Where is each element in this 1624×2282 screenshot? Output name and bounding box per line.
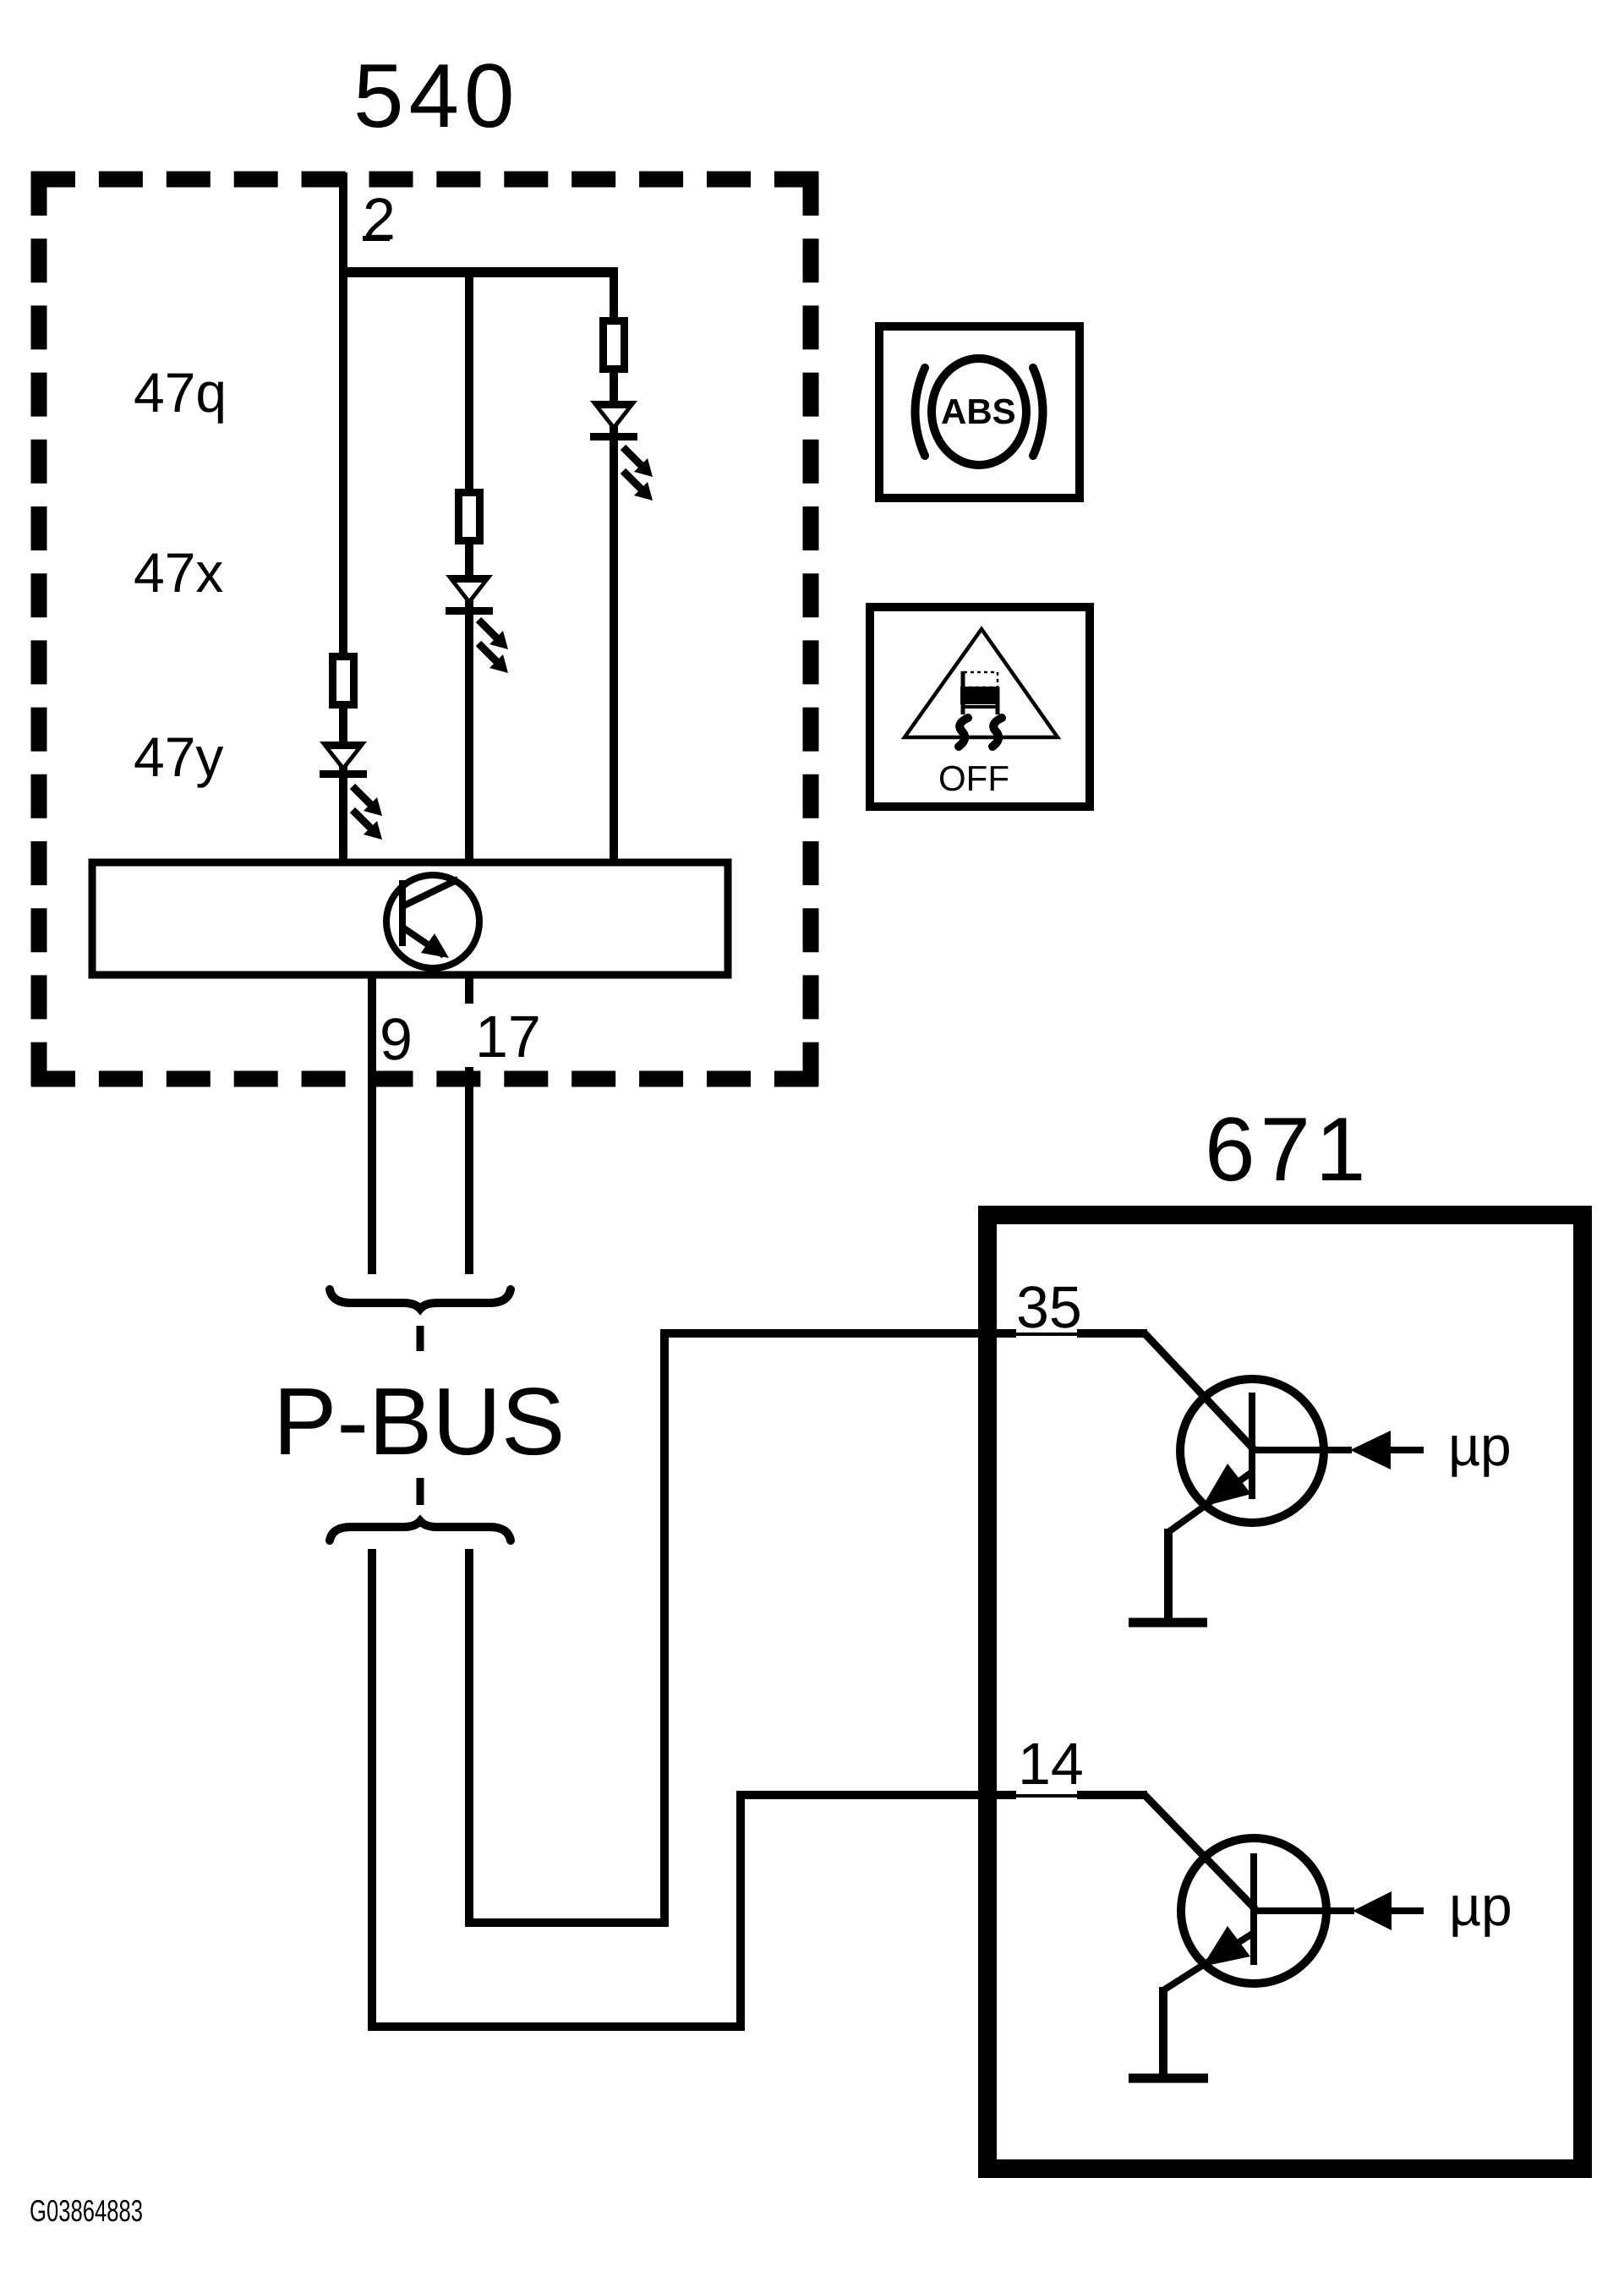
svg-text:P-BUS: P-BUS	[273, 1368, 565, 1475]
wire pin 35 into box	[1077, 1329, 1147, 1338]
svg-text:ABS: ABS	[941, 391, 1016, 431]
resistor in 47x branch	[459, 493, 480, 541]
pin 2 underline	[363, 236, 390, 241]
wire pin 9	[368, 975, 376, 1274]
wire Q1 emitter	[1164, 1529, 1173, 1620]
wire pin 17 upper stub	[465, 975, 473, 1004]
svg-text:17: 17	[475, 1004, 541, 1070]
pin 35 tick (thin wire under label)	[1011, 1333, 1082, 1336]
svg-text:G03864883: G03864883	[30, 2193, 143, 2228]
svg-text:2: 2	[363, 186, 396, 252]
svg-text:47y: 47y	[134, 725, 223, 788]
wire pin 17 lower	[465, 1067, 473, 1274]
wire bus node 2 horizontal	[339, 267, 618, 277]
svg-text:47x: 47x	[134, 541, 223, 604]
P-BUS dashed link upper	[417, 1326, 424, 1351]
transistor Q2	[1163, 1838, 1354, 1990]
phototransistor symbol in strip	[386, 875, 479, 968]
ground Q2	[1129, 2074, 1208, 2083]
svg-text:540: 540	[353, 45, 520, 146]
LED 47q	[590, 401, 653, 501]
svg-text:14: 14	[1018, 1731, 1084, 1797]
wire branch 47y	[339, 272, 347, 862]
transistor Q1 base lead	[1143, 1332, 1254, 1449]
wire P-BUS right to pin 35	[469, 1333, 1016, 1923]
svg-text:OFF: OFF	[938, 758, 1009, 798]
LED 47x	[446, 575, 508, 673]
P-BUS dashed link lower	[417, 1478, 424, 1505]
ABS warning indicator icon	[879, 326, 1080, 498]
wire pin 2 stub	[339, 172, 347, 272]
microprocessor control arrow Q1	[1350, 1431, 1391, 1469]
wire Q2 emitter	[1159, 1987, 1167, 2076]
LED 47y	[320, 742, 382, 840]
traction control OFF indicator icon	[870, 607, 1090, 807]
svg-text:9: 9	[380, 1006, 413, 1072]
brace lower (P-BUS)	[330, 1521, 511, 1540]
connector strip box	[92, 862, 728, 975]
svg-text:671: 671	[1205, 1098, 1371, 1200]
wire P-BUS left to pin 14	[372, 1549, 1016, 2027]
brace upper (P-BUS)	[330, 1289, 511, 1309]
wire pin 14 into box	[1077, 1791, 1147, 1799]
component box 540 dashed border	[31, 172, 818, 1086]
svg-text:47q: 47q	[134, 361, 227, 424]
transistor Q1	[1168, 1379, 1352, 1532]
microprocessor control arrow Q2	[1353, 1891, 1392, 1930]
pin 14 tick (thin wire under label)	[1011, 1794, 1082, 1798]
resistor in 47y branch	[333, 657, 354, 705]
svg-text:35: 35	[1016, 1274, 1082, 1340]
wire branch 47x	[465, 272, 473, 862]
ground Q1	[1129, 1618, 1207, 1628]
svg-text:µp: µp	[1448, 1415, 1512, 1477]
svg-text:µp: µp	[1449, 1874, 1512, 1937]
transistor Q2 base lead	[1143, 1793, 1255, 1909]
resistor in 47q branch	[604, 321, 625, 369]
wire branch 47q	[610, 272, 618, 862]
component box 671 border	[987, 1215, 1583, 2169]
